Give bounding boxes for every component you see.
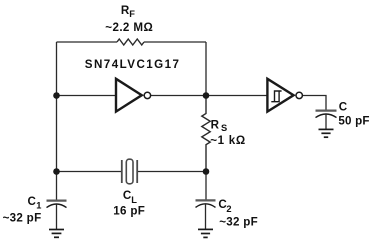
svg-text:~2.2 MΩ: ~2.2 MΩ: [105, 21, 153, 34]
label RS: [211, 118, 228, 133]
capacitor C2: [196, 172, 216, 230]
label RF: [121, 4, 135, 19]
svg-text:~32 pF: ~32 pF: [3, 212, 42, 225]
svg-text:~1 kΩ: ~1 kΩ: [210, 134, 246, 147]
svg-text:SN74LVC1G17: SN74LVC1G17: [85, 58, 181, 71]
label C1: [28, 195, 42, 211]
svg-text:C: C: [339, 101, 348, 114]
resistor RS: [202, 96, 210, 172]
svg-text:50 pF: 50 pF: [338, 115, 369, 128]
svg-text:16 pF: 16 pF: [113, 205, 145, 218]
svg-text:2: 2: [226, 204, 231, 214]
svg-text:~32 pF: ~32 pF: [219, 216, 258, 229]
svg-text:1: 1: [36, 201, 41, 211]
wire top-right lead: [144, 41, 206, 43]
node junction A: [53, 92, 60, 99]
hysteresis symbol U2: [271, 91, 281, 102]
capacitor C1: [47, 172, 67, 230]
ground C2: [198, 229, 213, 237]
svg-text:C: C: [28, 195, 37, 208]
node bubble U1 output: [144, 92, 150, 98]
wire right drop to output node: [205, 42, 207, 96]
node junction D: [203, 168, 210, 175]
svg-text:F: F: [129, 9, 135, 19]
capacitor C: [316, 111, 337, 130]
wire bottom-right segment: [137, 171, 206, 173]
node junction B: [203, 92, 210, 99]
wire bottom-left segment: [57, 171, 122, 173]
node bubble U2 output: [296, 92, 302, 98]
ground C1: [49, 230, 64, 238]
resistor RF: [117, 39, 144, 45]
wire buffer input: [57, 95, 117, 97]
svg-text:L: L: [131, 195, 137, 205]
crystal Y1: [122, 159, 137, 184]
wire left rail: [56, 42, 58, 172]
wire buffer1 output to buffer2 input: [151, 95, 267, 97]
label CL: [123, 189, 137, 205]
svg-text:S: S: [221, 123, 227, 133]
label C2: [218, 198, 231, 214]
op-amp U2 schmitt buffer: [267, 79, 293, 112]
wire top-left lead: [57, 41, 118, 43]
op-amp U1 buffer SN74LVC1G17: [116, 79, 142, 112]
wire buffer2 output: [303, 96, 326, 111]
ground C: [319, 129, 334, 137]
svg-text:R: R: [211, 118, 220, 131]
node junction C: [53, 168, 60, 175]
